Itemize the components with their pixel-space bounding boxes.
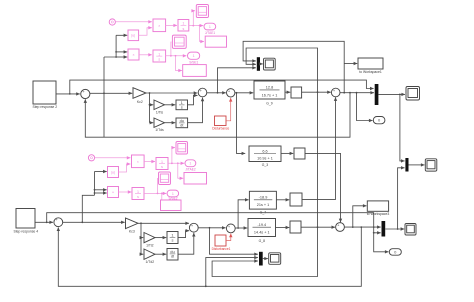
wire clock1 to product P1 xyxy=(115,21,151,23)
svg-text:|u|: |u| xyxy=(111,171,115,175)
wire S3m to G11 xyxy=(235,92,253,94)
wire A2b to I2b xyxy=(119,191,132,193)
wire arrow into A2 top xyxy=(116,51,127,53)
svg-text:G_9: G_9 xyxy=(266,101,273,105)
transport delay T22 xyxy=(290,221,301,233)
wire into gain 1/Tis xyxy=(150,104,154,106)
svg-text:G_3: G_3 xyxy=(262,163,269,167)
display O2 oval xyxy=(389,249,401,256)
svg-text:s: s xyxy=(183,27,185,31)
derivative Der1 xyxy=(176,118,188,128)
transport delay T11 xyxy=(291,87,302,98)
wire 1/Ti2 to integrator Int2 xyxy=(155,237,166,239)
wire to workspace R2 xyxy=(176,56,182,71)
svg-text:Disturbance1: Disturbance1 xyxy=(212,247,231,251)
transfer function G21 xyxy=(249,146,281,162)
svg-text:J/TAE1: J/TAE1 xyxy=(205,31,215,35)
wire S2m to sum S3m xyxy=(207,92,226,94)
wire T22 to sum S8m xyxy=(301,226,335,228)
svg-text:s: s xyxy=(172,237,174,242)
node junction r2 mux4 xyxy=(373,232,375,234)
svg-text:1: 1 xyxy=(137,190,139,194)
svg-text:1: 1 xyxy=(182,22,184,26)
integrator I2 xyxy=(153,50,166,62)
node junction u2 tap xyxy=(209,227,211,229)
sum S6m xyxy=(189,223,198,232)
node junction I2b a xyxy=(157,193,159,195)
svg-text:s: s xyxy=(158,58,160,62)
display D2 oval xyxy=(188,52,200,59)
wire S4m to mux M1 xyxy=(340,92,374,94)
wire S8m to mux M4 xyxy=(344,226,380,228)
wire mux M4 to scope Scope4 xyxy=(385,228,404,230)
svg-text:1: 1 xyxy=(161,160,163,164)
wire y2 up to workspace3 xyxy=(353,206,367,227)
scope S1 xyxy=(196,5,208,18)
svg-text:Disturbance: Disturbance xyxy=(212,127,229,131)
wire sum S5m to gain Kc3 xyxy=(63,221,125,223)
wire step2 to sum S1m xyxy=(56,93,80,95)
product A2 (e*e) xyxy=(128,49,139,60)
wire r2 branch to display O2 xyxy=(374,233,389,252)
svg-text:1: 1 xyxy=(158,52,160,56)
scope S2 xyxy=(172,35,186,48)
sum S4m xyxy=(331,88,340,97)
wire mux M2 to scope Scope2 xyxy=(409,164,425,166)
wire black feed e2 to cluster xyxy=(82,172,94,223)
svg-text:Kc2: Kc2 xyxy=(137,100,143,104)
abs block A1b |u| xyxy=(108,167,119,178)
wire Der2 to sum S6m bottom xyxy=(178,233,194,254)
abs block A1 |u| xyxy=(128,30,139,41)
node junction black d xyxy=(94,192,96,194)
wire into to-workspace1 xyxy=(344,63,357,65)
svg-text:×: × xyxy=(112,191,114,195)
wire y1 down to mux M2 xyxy=(400,94,405,160)
svg-text:Step response 4: Step response 4 xyxy=(13,230,38,234)
wire mux M5 to scope Scope5 xyxy=(263,258,268,260)
wire u1 to mux M3 xyxy=(218,68,256,93)
node junction Ti2 branch xyxy=(140,237,142,239)
wire T11 to sum S4m xyxy=(302,91,331,93)
wire 1/Tds to derivative Der1 xyxy=(165,122,176,124)
wire r1 reference to mux M1 xyxy=(70,80,374,94)
wire mux M1 to scope Scope1 xyxy=(378,93,405,95)
wire y2 to mux M5 bottom xyxy=(212,227,317,276)
node junction Kc2 out xyxy=(149,92,151,94)
integrator Int2 xyxy=(167,232,178,244)
wire P1b to I1b xyxy=(144,161,155,163)
node junction black a xyxy=(115,51,117,53)
mux M3 xyxy=(257,57,260,71)
wire y1 to display O1 xyxy=(357,93,373,121)
svg-text:6.6: 6.6 xyxy=(262,149,267,153)
node junction e2 tap xyxy=(81,221,83,223)
wire into gain 1/Td2 xyxy=(141,253,143,255)
node junction y1a tap xyxy=(317,91,319,93)
node junction I2 out a xyxy=(170,55,172,57)
wire PID branch vertical xyxy=(149,93,151,123)
svg-text:1/Tis: 1/Tis xyxy=(156,110,164,114)
node junction y1 b xyxy=(349,92,351,94)
wire to scope S1 xyxy=(193,11,195,26)
wire A2 to integrator I2 xyxy=(139,54,152,56)
wire into gain 1/Tds xyxy=(150,122,154,124)
node junction I2b b xyxy=(161,193,163,195)
clock Clock2 xyxy=(88,155,94,161)
scope Scope5 xyxy=(269,253,281,264)
svg-text:s: s xyxy=(161,165,163,169)
svg-text:1: 1 xyxy=(193,54,195,58)
node junction u1 tap down xyxy=(236,92,238,94)
node junction r2 tap xyxy=(46,221,48,223)
gain 1/Td2 xyxy=(144,249,155,259)
gain 1/Ti2 xyxy=(144,233,155,243)
wire into gain 1/Ti2 xyxy=(141,237,143,239)
product P1b xyxy=(132,155,145,168)
sum S8m xyxy=(336,223,345,232)
svg-text:10.9s + 1: 10.9s + 1 xyxy=(257,156,273,160)
wire y1a line to mux M3 input2 xyxy=(246,48,317,227)
svg-text:1/Ti2: 1/Ti2 xyxy=(146,244,154,248)
node junction y2 a xyxy=(352,226,354,228)
wire 1/Td2 to derivative Der2 xyxy=(155,253,166,255)
node junction y2 b xyxy=(360,226,362,228)
wire black feed e1 to cluster xyxy=(104,35,116,57)
wire G11 to delay T11 xyxy=(285,91,290,93)
node junction I1 out b xyxy=(199,25,201,27)
wire u2 to mux M5 top xyxy=(210,228,258,254)
wire u1 to G21 xyxy=(237,93,246,154)
display D1b oval xyxy=(185,160,196,167)
svg-text:to Workspace1: to Workspace1 xyxy=(359,70,382,74)
svg-text:1: 1 xyxy=(209,25,211,29)
wire T12 up to sum S4m xyxy=(302,97,336,199)
derivative Der2 xyxy=(167,249,178,261)
node junction feedback tap xyxy=(205,285,207,287)
svg-text:s: s xyxy=(137,195,139,199)
wire mux M3 to scope S3c xyxy=(260,63,263,65)
node junction r1 tap xyxy=(69,93,71,95)
svg-text:1: 1 xyxy=(172,192,174,196)
mux M2 xyxy=(405,158,408,172)
node junction y1 a xyxy=(343,92,345,94)
node junction I1b a xyxy=(171,162,173,164)
wire to workspace R1 xyxy=(200,26,204,42)
svg-text:S/SE1: S/SE1 xyxy=(189,61,198,65)
wire A1 to P1 xyxy=(139,28,152,36)
svg-text:×: × xyxy=(158,24,160,28)
wire r2 reference line xyxy=(47,213,381,233)
wire feedback y2 to sum S5m xyxy=(58,227,361,286)
svg-text:12.8: 12.8 xyxy=(266,86,273,90)
integrator I1b xyxy=(156,158,168,170)
wire G12 to delay T12 xyxy=(276,199,289,201)
wire to scope S1b xyxy=(172,148,175,164)
transport delay T12 xyxy=(290,193,302,206)
wire to workspace R1b xyxy=(178,163,183,178)
to-workspace R1b xyxy=(184,173,207,185)
svg-text:16.7s + 1: 16.7s + 1 xyxy=(262,93,278,97)
node junction I1b b xyxy=(177,162,179,164)
clock Clock1 xyxy=(109,19,115,25)
wire arrow into A1b xyxy=(95,171,107,173)
wire y2fb to mux M5 mid xyxy=(206,258,258,287)
svg-text:-19.4: -19.4 xyxy=(257,223,266,227)
sum S2m xyxy=(198,88,207,97)
wire Der1 to sum S2m bottom xyxy=(188,98,203,123)
to-workspace R2b xyxy=(161,200,182,211)
to-workspace block W3 xyxy=(367,201,388,211)
wire to workspace R2b xyxy=(161,193,163,199)
svg-text:1: 1 xyxy=(189,162,191,166)
scope Scope1 xyxy=(406,87,420,101)
transfer function G12 xyxy=(249,191,276,209)
to-workspace block W1 xyxy=(358,58,383,69)
wire 1/Tis to integrator Int1 xyxy=(165,104,176,106)
integrator I2b xyxy=(132,188,144,200)
disturbance block D1 xyxy=(215,235,226,246)
gain 1/Tds xyxy=(154,118,165,127)
wire sum S1m to gain Kc2 xyxy=(90,92,132,94)
sum S5m xyxy=(54,217,63,228)
svg-text:-18.9: -18.9 xyxy=(259,196,268,200)
wire S7m to G22 xyxy=(235,227,247,229)
wire Int1 to sum S2m xyxy=(188,95,198,104)
wire to scope S2 xyxy=(170,42,173,56)
wire T21 to sum S8m (down) xyxy=(305,153,341,222)
node junction e1 tap xyxy=(103,92,105,94)
integrator Int1 xyxy=(176,100,188,110)
node junction u1 tap up xyxy=(217,92,219,94)
svg-text:G_8: G_8 xyxy=(259,239,266,243)
scope Scope4 xyxy=(405,224,416,236)
transfer function G22 xyxy=(248,219,276,237)
sum S3m xyxy=(227,88,235,97)
transport delay T21 xyxy=(294,148,305,159)
mux M5 xyxy=(259,252,263,266)
node junction y2 to mux M2 xyxy=(397,228,399,230)
wire Int2 to sum S6m xyxy=(178,231,189,238)
wire arrow into A2b top xyxy=(95,189,107,191)
node junction I2 out b xyxy=(175,55,177,57)
wire I2 to display D2 xyxy=(166,55,187,57)
svg-text:21s + 1: 21s + 1 xyxy=(257,203,270,207)
svg-text:1/Tds: 1/Tds xyxy=(155,128,164,132)
step source Step-response-4 xyxy=(16,209,35,229)
wire G22 to delay T22 xyxy=(276,227,290,229)
wire step4 to sum S5m xyxy=(35,221,53,223)
wire P1 to integrator I1 xyxy=(166,24,177,26)
gain 1/Tis xyxy=(154,100,165,110)
node junction black c xyxy=(94,189,96,191)
integrator I1 xyxy=(178,20,189,32)
wire y1 up to workspace and mux3 xyxy=(243,41,344,92)
svg-text:1/Td2: 1/Td2 xyxy=(145,260,154,264)
to-workspace R1 xyxy=(205,36,226,47)
wire Kc3 to sum S6m xyxy=(138,222,189,224)
node junction Ti branch xyxy=(149,104,151,106)
wire feedback y1 to sum S1m xyxy=(85,93,350,138)
svg-text:Kc3: Kc3 xyxy=(129,229,135,233)
svg-text:s: s xyxy=(181,105,183,110)
step source Step-response-2 xyxy=(33,81,56,104)
scope S1b xyxy=(176,142,188,155)
disturbance block D0 xyxy=(215,116,227,126)
node junction y2 loop tap xyxy=(317,226,319,228)
wire u2 into G12 xyxy=(238,200,249,228)
wire S6m to sum S7m xyxy=(198,227,225,229)
scope S2b xyxy=(159,172,171,185)
wire clock2 to product P1b xyxy=(95,157,131,159)
svg-text:|u|: |u| xyxy=(131,34,135,38)
svg-text:×: × xyxy=(132,53,134,57)
wire y2 up to mux M2 xyxy=(398,168,405,229)
wire to scope S2b xyxy=(157,179,160,194)
display D1 oval xyxy=(204,23,216,30)
wire I2b to display D2b xyxy=(144,192,166,194)
svg-text:Step response 2: Step response 2 xyxy=(32,105,57,109)
wire arrow into A2b bottom xyxy=(95,192,107,194)
scope Scope2 xyxy=(425,159,437,171)
wire disturbance1 to sum S7m xyxy=(226,234,231,241)
mux M1 xyxy=(375,84,379,105)
svg-text:to Workspace3: to Workspace3 xyxy=(367,212,390,216)
svg-text:14.4s + 1: 14.4s + 1 xyxy=(254,231,270,235)
gain Kc3 xyxy=(126,218,139,229)
node junction u2 to G12 xyxy=(237,227,239,229)
wire e1 vertical xyxy=(103,57,105,137)
wire G21 to delay T21 xyxy=(281,152,293,154)
wire arrow into A1 xyxy=(116,34,127,36)
node junction y2 c xyxy=(373,226,375,228)
svg-text:J/TAE2: J/TAE2 xyxy=(185,168,195,172)
to-workspace R2 xyxy=(183,65,207,77)
sum S7m xyxy=(226,224,235,233)
gain Kc2 xyxy=(133,88,146,99)
wire A1b to P1b xyxy=(119,164,131,172)
product A2b xyxy=(108,187,119,198)
scope Scope3 xyxy=(264,58,276,70)
node junction Kc3 out xyxy=(140,222,142,224)
wire I1 to display D1 xyxy=(189,25,203,27)
product P1 xyxy=(153,19,166,32)
wire PID2 branch vertical xyxy=(140,223,142,254)
node junction y1 c xyxy=(356,92,358,94)
display D2b oval xyxy=(167,190,179,197)
sum S1m xyxy=(81,89,90,101)
wire arrow into A2 bottom xyxy=(116,56,127,58)
transfer function G11 xyxy=(254,81,285,99)
display O1 oval xyxy=(373,117,385,124)
svg-text:×: × xyxy=(137,160,139,164)
wire Kc2 to sum S2m xyxy=(146,92,197,94)
mux M4 xyxy=(382,221,386,237)
node junction I1 out a xyxy=(192,25,194,27)
wire disturbance to sum S3m xyxy=(226,98,231,121)
node junction scope1 wire xyxy=(399,94,401,96)
wire I1b to display D1b xyxy=(168,162,184,164)
node junction black b xyxy=(115,56,117,58)
